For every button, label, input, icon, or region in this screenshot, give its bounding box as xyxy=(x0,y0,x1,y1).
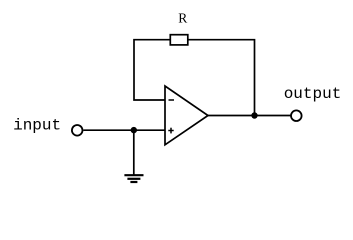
wire junction to ground xyxy=(133,130,135,175)
svg-text:output: output xyxy=(284,85,342,103)
node junction on output wire xyxy=(251,112,257,118)
node junction on input wire xyxy=(131,127,137,133)
output terminal xyxy=(291,110,302,121)
ground xyxy=(124,175,143,182)
svg-text:input: input xyxy=(13,117,61,135)
op-amp U1 xyxy=(165,86,208,145)
wire input to non-inverting input xyxy=(83,129,165,131)
wire output xyxy=(208,115,291,117)
wire feedback right side xyxy=(188,40,255,116)
svg-text:R: R xyxy=(178,11,187,26)
wire inverting input and feedback left side xyxy=(134,40,170,100)
input terminal xyxy=(72,125,83,136)
resistor R xyxy=(170,35,188,45)
